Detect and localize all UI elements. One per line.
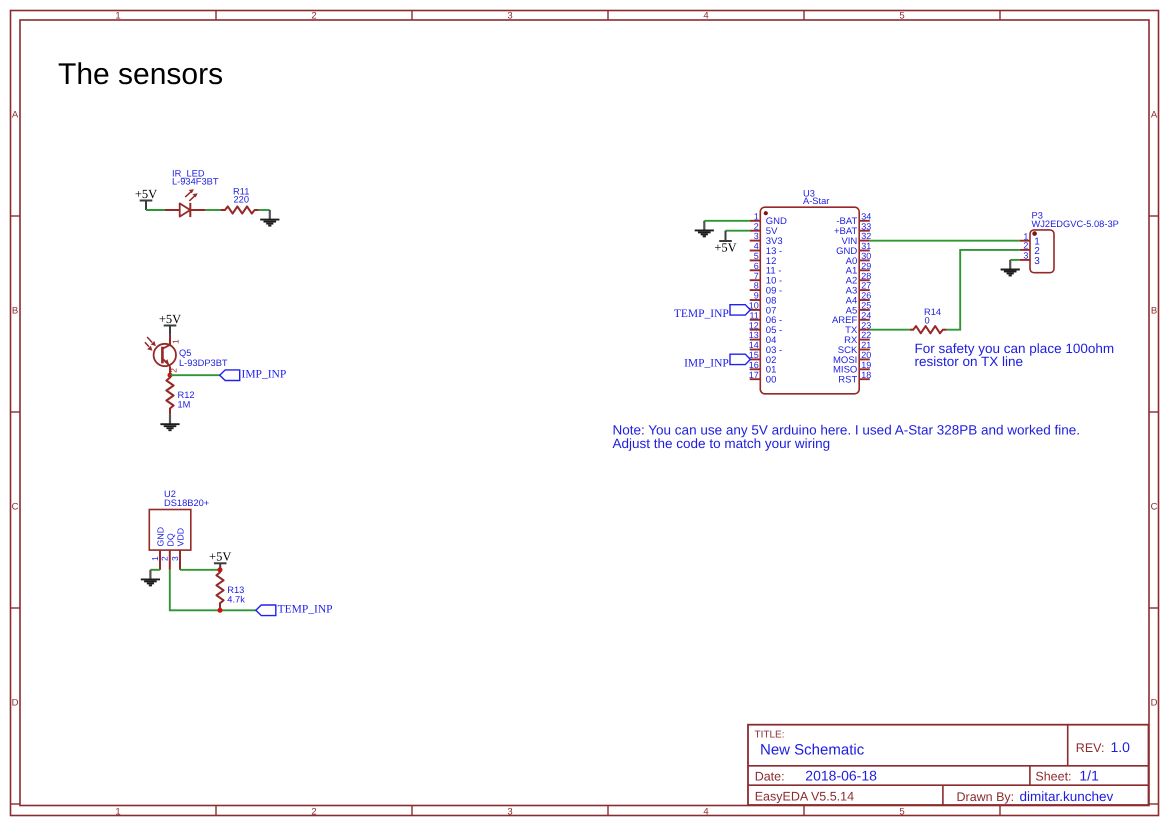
U3 left pin stubs <box>750 221 761 379</box>
wire U3 pin2 to +5V <box>726 230 750 232</box>
svg-text:32: 32 <box>861 231 871 241</box>
svg-text:12: 12 <box>749 320 759 330</box>
svg-text:1: 1 <box>754 211 759 221</box>
svg-text:18: 18 <box>861 370 871 380</box>
wire D cathode to R11 <box>205 209 220 211</box>
wire R11 to ground <box>259 209 270 211</box>
svg-text:8: 8 <box>754 281 759 291</box>
junction Q5 emitter / R12 / IMP_INP <box>168 373 173 378</box>
svg-text:REV:: REV: <box>1076 741 1105 755</box>
svg-text:4: 4 <box>703 11 708 22</box>
svg-text:1M: 1M <box>178 399 191 409</box>
svg-text:22: 22 <box>861 330 871 340</box>
svg-text:D: D <box>1151 698 1158 709</box>
svg-text:TEMP_INP: TEMP_INP <box>674 308 729 320</box>
svg-text:2: 2 <box>160 556 170 561</box>
wire U3 VIN to P3 pin1 <box>870 240 1020 242</box>
svg-text:DQ: DQ <box>166 533 176 546</box>
svg-text:2: 2 <box>168 368 178 373</box>
wire U3 pin1 GND to ground <box>704 220 749 222</box>
ruler column numbers bottom <box>115 806 904 817</box>
ruler ticks left <box>11 215 21 217</box>
P3 pin 1 marker dot <box>1032 231 1037 236</box>
svg-text:2018-06-18: 2018-06-18 <box>805 767 877 783</box>
svg-text:7: 7 <box>754 271 759 281</box>
svg-text:3: 3 <box>507 806 512 817</box>
svg-text:+5V: +5V <box>209 550 231 564</box>
svg-text:220: 220 <box>234 195 250 205</box>
svg-text:L-934F3BT: L-934F3BT <box>172 177 219 187</box>
IC U3 A-Star body <box>760 207 859 394</box>
svg-text:VDD: VDD <box>176 528 186 547</box>
svg-text:IMP_INP: IMP_INP <box>242 368 287 380</box>
svg-text:4: 4 <box>703 806 708 817</box>
U3 pin 1 marker dot <box>764 211 768 215</box>
svg-text:B: B <box>1151 306 1157 317</box>
svg-text:C: C <box>12 502 19 513</box>
svg-text:IMP_INP: IMP_INP <box>684 358 729 370</box>
svg-text:Date:: Date: <box>755 769 785 783</box>
ruler ticks right <box>1149 215 1159 217</box>
svg-text:14: 14 <box>749 340 759 350</box>
svg-text:1: 1 <box>115 11 120 22</box>
svg-text:GND: GND <box>155 527 165 547</box>
svg-text:1.0: 1.0 <box>1111 739 1131 755</box>
svg-text:WJ2EDGVC-5.08-3P: WJ2EDGVC-5.08-3P <box>1032 219 1119 229</box>
svg-text:3: 3 <box>754 231 759 241</box>
svg-text:25: 25 <box>861 301 871 311</box>
connector P3 body <box>1030 230 1054 273</box>
wire U3 TX to R14 <box>870 329 910 331</box>
P3 pin stubs <box>1020 241 1030 260</box>
svg-text:20: 20 <box>861 350 871 360</box>
junction VDD / +5V / R13 top <box>218 567 223 572</box>
ruler column numbers top <box>115 11 904 22</box>
svg-text:B: B <box>12 306 18 317</box>
svg-text:1: 1 <box>170 339 180 344</box>
LED IR_LED L-934F3BT <box>165 189 205 217</box>
U3 right pin names <box>832 216 858 385</box>
svg-text:4.7k: 4.7k <box>227 595 245 605</box>
svg-text:TEMP_INP: TEMP_INP <box>278 604 333 616</box>
svg-text:3: 3 <box>1034 256 1040 267</box>
svg-text:R13: R13 <box>227 585 244 595</box>
svg-text:EasyEDA V5.5.14: EasyEDA V5.5.14 <box>755 790 854 804</box>
svg-text:13: 13 <box>749 330 759 340</box>
power +5V (Q5 circuit) <box>159 312 181 335</box>
U3 left pin numbers 1-17 <box>749 211 759 379</box>
svg-text:2: 2 <box>1023 241 1028 251</box>
svg-text:C: C <box>1151 502 1158 513</box>
net flag TEMP_INP (U2) <box>256 604 333 616</box>
ruler row letters right <box>1151 110 1158 709</box>
svg-text:23: 23 <box>861 320 871 330</box>
svg-text:1/1: 1/1 <box>1079 767 1099 783</box>
svg-text:Q5: Q5 <box>179 348 191 358</box>
svg-text:16: 16 <box>749 360 759 370</box>
svg-text:A: A <box>1151 110 1158 121</box>
U3 left pin names <box>766 216 787 385</box>
wire junction to IMP_INP flag <box>170 374 220 376</box>
ground (Q5 circuit) <box>160 415 179 431</box>
svg-text:Drawn By:: Drawn By: <box>957 790 1015 804</box>
svg-text:D: D <box>12 698 19 709</box>
svg-text:1: 1 <box>150 556 160 561</box>
svg-text:27: 27 <box>861 281 871 291</box>
svg-text:21: 21 <box>861 340 871 350</box>
svg-text:19: 19 <box>861 360 871 370</box>
svg-text:3: 3 <box>1023 251 1028 261</box>
svg-text:5: 5 <box>899 806 904 817</box>
svg-text:33: 33 <box>861 221 871 231</box>
svg-text:17: 17 <box>749 370 759 380</box>
svg-text:Sheet:: Sheet: <box>1035 769 1071 783</box>
svg-text:24: 24 <box>861 310 871 320</box>
svg-text:DS18B20+: DS18B20+ <box>164 498 209 508</box>
ground (LED circuit) <box>260 210 279 226</box>
wire U2 GND to ground <box>150 569 160 571</box>
svg-text:L-93DP3BT: L-93DP3BT <box>179 358 228 368</box>
svg-text:New Schematic: New Schematic <box>760 742 865 759</box>
svg-text:29: 29 <box>861 261 871 271</box>
svg-text:4: 4 <box>754 241 759 251</box>
svg-text:3: 3 <box>507 11 512 22</box>
power +5V (LED circuit) <box>135 187 157 210</box>
svg-text:5: 5 <box>899 11 904 22</box>
ruler ticks top <box>215 11 217 21</box>
svg-text:+5V: +5V <box>135 187 157 201</box>
svg-text:dimitar.kunchev: dimitar.kunchev <box>1020 789 1114 804</box>
svg-text:2: 2 <box>311 11 316 22</box>
svg-text:00: 00 <box>766 375 777 386</box>
svg-text:+5V: +5V <box>159 312 181 326</box>
wire P3 pin3 to ground <box>1010 259 1020 261</box>
svg-text:TITLE:: TITLE: <box>755 730 785 741</box>
svg-text:The sensors: The sensors <box>58 58 223 91</box>
ground (P3 pin3) <box>1001 260 1020 276</box>
transistor Q5 L-93DP3BT phototransistor <box>145 335 176 375</box>
svg-text:RST: RST <box>838 375 857 386</box>
svg-text:2: 2 <box>754 221 759 231</box>
U3 right pin numbers 34-18 <box>861 211 871 379</box>
wire R14 to P3 pin2 <box>947 250 1020 330</box>
svg-text:34: 34 <box>861 211 871 221</box>
resistor R13 <box>216 570 223 611</box>
svg-text:Adjust the code to match your: Adjust the code to match your wiring <box>613 436 831 451</box>
wire U2 DQ to TEMP_INP <box>170 570 256 611</box>
ruler ticks bottom <box>215 806 217 816</box>
svg-text:3: 3 <box>170 556 180 561</box>
svg-text:28: 28 <box>861 271 871 281</box>
net flag IMP_INP (U3 pin15) <box>684 354 750 369</box>
wire +5V to D anode <box>146 209 165 211</box>
power +5V (U2 circuit) <box>209 550 231 570</box>
junction R13 bottom / DQ wire <box>218 608 223 613</box>
svg-text:+5V: +5V <box>714 240 736 254</box>
svg-text:5: 5 <box>754 251 759 261</box>
svg-text:30: 30 <box>861 251 871 261</box>
svg-text:11: 11 <box>749 310 758 320</box>
svg-text:31: 31 <box>861 241 871 251</box>
svg-text:0: 0 <box>925 316 930 326</box>
net flag IMP_INP (Q5) <box>220 368 287 380</box>
svg-text:resistor on TX line: resistor on TX line <box>915 354 1024 369</box>
svg-text:6: 6 <box>754 261 759 271</box>
svg-text:2: 2 <box>311 806 316 817</box>
resistor R12 <box>166 375 173 414</box>
U3 right pin stubs <box>859 221 870 379</box>
ruler row letters left <box>12 110 19 709</box>
ground (U2 circuit) <box>141 570 160 586</box>
net flag TEMP_INP (U3 pin10) <box>674 305 750 320</box>
resistor R11 <box>220 206 258 213</box>
svg-text:26: 26 <box>861 291 871 301</box>
P3 pin numbers 1-3 <box>1023 231 1028 260</box>
wire U2 VDD to +5V node <box>180 569 220 571</box>
svg-text:A-Star: A-Star <box>803 196 829 206</box>
power +5V (U3 pin2) <box>714 231 736 255</box>
svg-text:1: 1 <box>115 806 120 817</box>
P3 pin names 1-3 <box>1034 237 1040 267</box>
ground (U3 pin1) <box>695 221 714 237</box>
resistor R14 <box>910 326 947 333</box>
IC U2 DS18B20+ body <box>149 510 191 570</box>
svg-text:9: 9 <box>754 291 759 301</box>
svg-text:A: A <box>12 110 19 121</box>
title block frame <box>748 725 1149 805</box>
